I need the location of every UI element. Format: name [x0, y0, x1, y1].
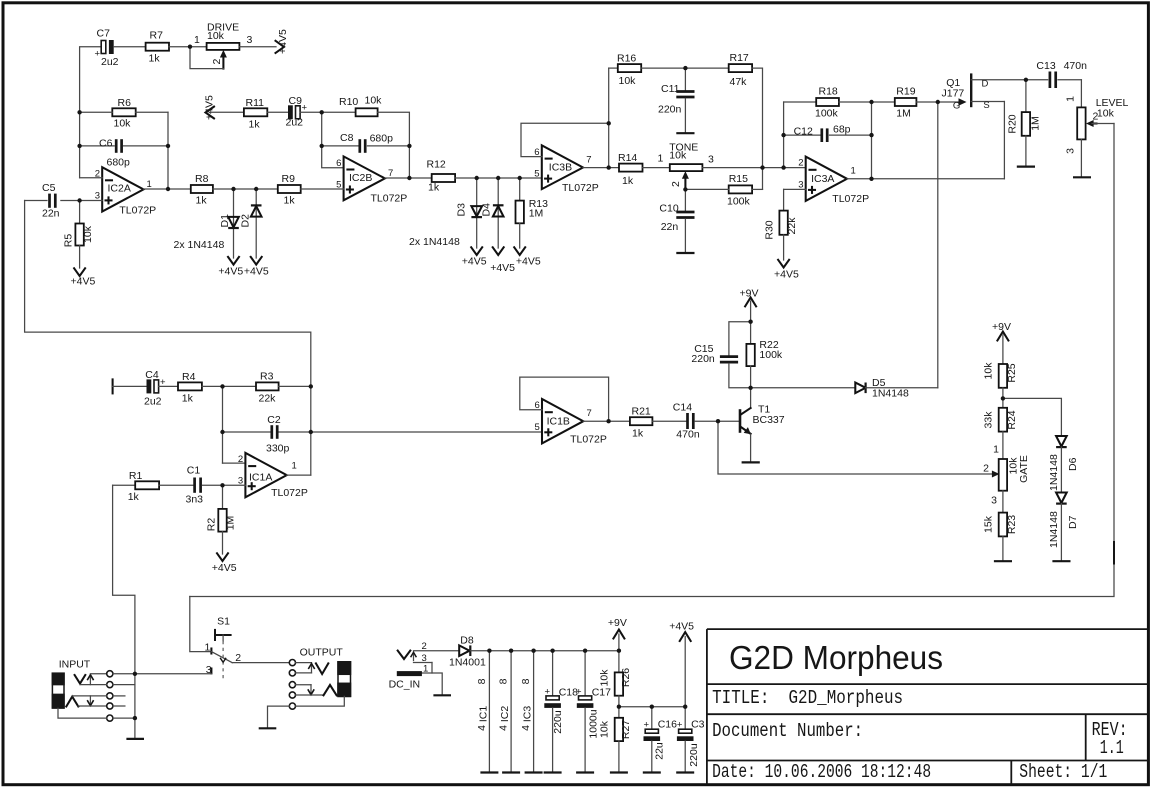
junction node at 783.6,167.6	[781, 165, 785, 169]
op-amp IC1A	[223, 453, 308, 499]
capacitor C2	[223, 414, 311, 455]
junction node at 321.7,112.3	[320, 110, 324, 114]
svg-text:R2: R2	[206, 518, 218, 532]
svg-text:GATE: GATE	[1018, 455, 1030, 483]
wire C9 to node	[300, 111, 356, 113]
svg-text:R19: R19	[896, 86, 915, 98]
svg-text:R30: R30	[764, 220, 776, 239]
resistor R19	[895, 86, 917, 120]
svg-text:22u: 22u	[654, 742, 666, 760]
resistor R16	[609, 53, 642, 88]
svg-text:+4V5: +4V5	[669, 620, 694, 632]
svg-text:R4: R4	[182, 371, 196, 383]
svg-text:1k: 1k	[149, 53, 161, 65]
svg-text:4: 4	[498, 725, 510, 731]
svg-text:IC1B: IC1B	[547, 416, 570, 428]
svg-text:22n: 22n	[661, 221, 679, 233]
resistor R18	[784, 86, 839, 120]
svg-text:2: 2	[983, 463, 989, 475]
resistor R14	[618, 152, 643, 187]
resistor R13	[516, 178, 549, 248]
svg-text:2u2: 2u2	[144, 396, 162, 408]
svg-text:1: 1	[423, 664, 428, 675]
svg-text:1: 1	[658, 153, 664, 165]
potentiometer LEVEL 10k	[1065, 80, 1129, 154]
junction node at 498.2,178	[496, 176, 500, 180]
resistor R15	[727, 173, 752, 208]
connector INPUT jack body	[52, 673, 64, 708]
wire OUTPUT circle5 to ground	[268, 706, 290, 728]
wire R17 right and down	[752, 68, 762, 189]
svg-text:+4V5: +4V5	[774, 269, 799, 281]
svg-text:R20: R20	[1007, 114, 1019, 133]
resistor R17	[729, 52, 752, 88]
svg-text:10k: 10k	[82, 225, 94, 243]
svg-text:C7: C7	[97, 28, 111, 40]
junction node at 310.8,432	[309, 430, 313, 434]
junction node at 134.9,718.1	[133, 716, 137, 720]
svg-text:10k: 10k	[599, 720, 611, 738]
capacitor C10	[659, 189, 694, 253]
svg-text:+4V5: +4V5	[71, 276, 96, 288]
wire vertical C12 right	[871, 102, 873, 179]
svg-text:7: 7	[586, 155, 591, 166]
svg-text:2u2: 2u2	[101, 56, 119, 68]
op-amp IC2B	[336, 156, 407, 204]
svg-text:IC2: IC2	[499, 706, 511, 723]
svg-text:D7: D7	[1067, 515, 1079, 529]
capacitor C12	[784, 124, 872, 143]
svg-text:R1: R1	[129, 470, 143, 482]
svg-text:+4V5: +4V5	[516, 256, 541, 268]
svg-text:220n: 220n	[691, 353, 715, 365]
ground below R23	[994, 560, 1012, 562]
svg-text:+: +	[95, 49, 101, 60]
svg-text:S: S	[983, 100, 989, 111]
supply +4V5 below D2	[244, 257, 269, 278]
diode D4	[481, 178, 504, 248]
op-amp IC1B	[535, 399, 607, 446]
svg-text:R5: R5	[63, 234, 75, 248]
svg-text:68p: 68p	[833, 124, 851, 136]
svg-text:C1: C1	[187, 465, 201, 477]
svg-text:C10: C10	[659, 203, 678, 215]
svg-text:D3: D3	[456, 203, 468, 217]
junction node at 937.8,102	[936, 100, 940, 104]
wire IC1A output	[287, 474, 311, 476]
capacitor C4	[144, 369, 166, 408]
wire R4 to node	[202, 385, 256, 387]
supply +4V5 arrow right	[276, 29, 290, 54]
svg-text:470n: 470n	[1064, 60, 1088, 72]
svg-text:D2: D2	[240, 214, 252, 228]
supply +4V5 below D4	[490, 247, 515, 274]
wire IC1B output	[583, 420, 630, 422]
svg-text:C8: C8	[340, 132, 354, 144]
svg-text:1M: 1M	[225, 516, 237, 531]
wire S1 pin2 to OUTPUT	[232, 662, 289, 664]
junction node at 533.6,650.7	[531, 649, 535, 653]
junction node at 190,46.7	[188, 45, 192, 49]
junction node at 618.9,650.7	[617, 649, 621, 653]
junction node at 585.1,650.7	[583, 649, 587, 653]
wire R12 to IC3B pin5	[455, 177, 542, 179]
svg-text:10k: 10k	[114, 118, 132, 130]
junction node at 762.5,167.6	[760, 165, 764, 169]
svg-text:3: 3	[991, 495, 997, 507]
switch S1	[190, 597, 242, 682]
junction node at 750.6,387.8	[748, 386, 752, 390]
diode D2	[240, 189, 262, 258]
svg-text:1N4001: 1N4001	[449, 657, 486, 669]
wire IC2B output to R12	[385, 177, 432, 179]
svg-text:IC2B: IC2B	[349, 172, 372, 184]
wire R11 to C9	[267, 111, 288, 113]
junction node at 608.6,421.2	[606, 419, 610, 423]
svg-text:R26: R26	[620, 668, 632, 687]
capacitor C1	[186, 465, 246, 506]
junction node at 222.5,432	[220, 430, 224, 434]
svg-text:470n: 470n	[676, 429, 700, 441]
svg-text:4: 4	[476, 725, 488, 731]
svg-text:33k: 33k	[983, 411, 995, 429]
transistor Q1 J177	[938, 73, 1026, 178]
junction node at 409.4,145.9	[407, 144, 411, 148]
wire LEVEL wiper long vertical	[190, 124, 1114, 597]
junction node at 552.6,650.7	[550, 649, 554, 653]
svg-text:10k: 10k	[207, 30, 225, 42]
svg-text:R21: R21	[632, 406, 651, 418]
diode D7	[1048, 493, 1079, 562]
INPUT tip contact	[75, 674, 107, 685]
resistor R27	[599, 718, 633, 773]
junction node at 519.7,178	[518, 176, 522, 180]
svg-text:IC2A: IC2A	[108, 183, 131, 195]
potentiometer GATE 10k	[983, 444, 1030, 507]
svg-text:+9V: +9V	[608, 617, 627, 629]
svg-text:R6: R6	[118, 97, 132, 109]
resistor R6	[112, 97, 135, 130]
svg-text:3: 3	[247, 34, 253, 46]
svg-text:7: 7	[388, 168, 393, 179]
svg-text:220u: 220u	[552, 710, 564, 734]
svg-text:R24: R24	[1006, 410, 1018, 429]
svg-text:INPUT: INPUT	[59, 659, 91, 671]
svg-text:+4V5: +4V5	[490, 262, 515, 274]
ground below LEVEL	[1073, 176, 1091, 178]
capacitor C11	[658, 68, 695, 133]
transistor T1 BC337	[740, 388, 785, 463]
svg-text:3: 3	[95, 191, 100, 202]
svg-text:R11: R11	[246, 97, 265, 109]
wire C4 to R4	[159, 385, 178, 387]
svg-text:3: 3	[1065, 148, 1077, 154]
svg-text:R12: R12	[427, 159, 446, 171]
junction node at 685.4,189.4	[683, 187, 687, 191]
svg-text:1N4148: 1N4148	[1048, 511, 1060, 548]
svg-text:J177: J177	[942, 87, 965, 99]
junction node at 168,189	[166, 187, 170, 191]
capacitor C17	[576, 651, 611, 773]
svg-text:C14: C14	[673, 402, 692, 414]
OUTPUT circle terminals	[289, 660, 295, 710]
svg-text:+: +	[545, 687, 551, 698]
capacitor C8	[322, 132, 410, 153]
junction node at 608.7,167.6	[607, 165, 611, 169]
junction node at 618.9,706.7	[617, 705, 621, 709]
wire R3 to node	[279, 385, 311, 387]
resistor R3	[256, 371, 279, 405]
junction node at 750.6,321.7	[748, 320, 752, 324]
svg-text:R9: R9	[282, 173, 296, 185]
svg-text:C6: C6	[99, 138, 113, 150]
junction node at 256.2,189	[254, 187, 258, 191]
wire DC_IN pin2 to D8	[414, 650, 460, 652]
junction node at 1002.9,398.4	[1001, 396, 1005, 400]
svg-text:220u: 220u	[688, 743, 700, 767]
connector DC_IN	[389, 641, 432, 691]
svg-text:4: 4	[520, 725, 532, 731]
svg-text:2x 1N4148: 2x 1N4148	[174, 239, 225, 251]
capacitor C5	[25, 182, 60, 220]
supply +9V above rail	[608, 617, 627, 651]
diode D6	[1048, 436, 1079, 493]
svg-text:100k: 100k	[759, 349, 783, 361]
svg-text:1: 1	[1065, 96, 1077, 102]
junction node at 1025.9,79.8	[1024, 78, 1028, 82]
junction node at 134.9,673.8	[133, 672, 137, 676]
svg-text:6: 6	[336, 158, 341, 169]
wire T1 base node down to gate row	[718, 421, 994, 474]
capacitor C9	[286, 95, 308, 129]
svg-text:+4V5: +4V5	[212, 562, 237, 574]
wire IC2A output	[144, 188, 191, 190]
OUTPUT sleeve wire	[296, 696, 345, 706]
svg-text:1M: 1M	[1030, 116, 1042, 131]
potentiometer DRIVE 10k	[190, 22, 253, 69]
svg-text:C17: C17	[592, 687, 611, 699]
supply +4V5 arrow left (R11)	[204, 95, 216, 120]
svg-text:22k: 22k	[259, 393, 277, 405]
svg-text:+9V: +9V	[992, 321, 1011, 333]
INPUT ring contact	[66, 696, 107, 707]
INPUT circle terminals	[107, 671, 113, 722]
svg-text:BC337: BC337	[753, 414, 785, 426]
wire IC3A output	[847, 178, 1004, 180]
svg-text:1k: 1k	[284, 195, 296, 207]
svg-text:1k: 1k	[196, 195, 208, 207]
svg-text:2x 1N4148: 2x 1N4148	[409, 236, 460, 248]
junction node at 310.8,386.4	[309, 384, 313, 388]
wire DC_IN pins to ground	[432, 663, 442, 696]
svg-text:R14: R14	[618, 152, 637, 164]
arrowhead into GATE wiper	[992, 471, 1000, 478]
wire R7 to node	[169, 46, 207, 48]
junction node at 476.7,178	[475, 176, 479, 180]
svg-text:1k: 1k	[128, 491, 140, 503]
svg-text:S1: S1	[217, 616, 230, 628]
resistor R24	[983, 408, 1019, 459]
wire power rail	[470, 650, 619, 652]
svg-text:15k: 15k	[983, 515, 995, 533]
svg-text:1: 1	[851, 166, 856, 177]
junction node at 608.7,123.3	[607, 121, 611, 125]
svg-text:DC_IN: DC_IN	[389, 679, 421, 691]
supply +9V right	[992, 321, 1011, 364]
wire C7 loop vertical	[80, 47, 101, 178]
wire IC2B pin6 branch	[322, 112, 344, 168]
svg-text:22n: 22n	[42, 208, 60, 220]
resistor R9	[278, 173, 301, 207]
svg-text:10k: 10k	[1097, 108, 1115, 120]
wire DRIVE pin3 to supply	[239, 46, 276, 48]
svg-text:100k: 100k	[815, 108, 839, 120]
svg-text:8: 8	[498, 678, 510, 684]
supply +4V5 below R5	[71, 268, 96, 287]
wire IC2A pin2	[80, 177, 103, 179]
svg-text:C11: C11	[661, 83, 680, 95]
wire C5 left loop down to R3 node	[25, 201, 311, 387]
svg-text:2: 2	[670, 181, 682, 187]
supply +4V5 below R30	[774, 260, 799, 281]
wire IC2A pin3 row	[61, 200, 102, 202]
wire C2 row to IC1B pin5	[311, 431, 542, 433]
resistor R2	[206, 485, 237, 554]
svg-text:10k: 10k	[669, 149, 687, 161]
svg-text:5: 5	[535, 422, 540, 433]
wire IC3A pin3	[784, 188, 806, 190]
junction node at 222.5,485.3	[220, 483, 224, 487]
svg-text:10k: 10k	[365, 95, 383, 107]
supply +9V above R22	[740, 288, 759, 322]
diode D5	[751, 377, 938, 400]
svg-text:C9: C9	[289, 95, 303, 107]
junction node at 718,421.2	[716, 419, 720, 423]
ground below OUTPUT	[259, 727, 277, 729]
connector OUTPUT jack body	[338, 662, 351, 697]
svg-text:R23: R23	[1006, 515, 1018, 534]
supply +4V5 below R13	[514, 247, 541, 267]
INPUT stub wires	[72, 674, 135, 718]
svg-text:1k: 1k	[622, 175, 634, 187]
svg-text:Document Number:: Document Number:	[712, 720, 863, 742]
svg-text:R8: R8	[195, 173, 209, 185]
svg-text:TL072P: TL072P	[271, 487, 308, 499]
svg-text:1: 1	[292, 461, 297, 472]
svg-text:+4V5: +4V5	[204, 95, 216, 120]
svg-text:1: 1	[993, 444, 999, 456]
wire R9 to IC2B pin5	[301, 188, 344, 190]
resistor R10	[339, 95, 382, 117]
svg-text:R16: R16	[617, 53, 636, 65]
svg-text:R27: R27	[620, 720, 632, 739]
svg-text:2: 2	[798, 158, 803, 169]
svg-text:1k: 1k	[428, 182, 440, 194]
diode D1	[219, 189, 239, 258]
svg-text:1: 1	[194, 34, 200, 46]
resistor R25	[983, 362, 1019, 408]
svg-text:1M: 1M	[529, 208, 544, 220]
wire R26/R27 node to C16 C3	[619, 706, 685, 708]
svg-text:1k: 1k	[632, 428, 644, 440]
wire gate vertical down to D5	[937, 102, 939, 388]
wire TONE wiper node to R15	[685, 188, 728, 190]
resistor R1	[113, 470, 193, 503]
svg-text:C13: C13	[1036, 60, 1055, 72]
supply +4V5 below D3	[462, 247, 487, 267]
svg-text:+4V5: +4V5	[218, 266, 243, 278]
junction node at 871.5,135.1	[869, 133, 873, 137]
supply +4V5 above C3	[669, 620, 694, 706]
svg-text:OUTPUT: OUTPUT	[300, 647, 344, 659]
OUTPUT tip contact	[296, 663, 329, 674]
capacitor C3	[676, 707, 704, 773]
svg-text:+9V: +9V	[740, 288, 759, 300]
svg-text:220n: 220n	[658, 104, 682, 116]
svg-text:2: 2	[211, 59, 223, 65]
capacitor C7	[95, 28, 119, 69]
diode D8	[449, 635, 486, 669]
svg-text:R17: R17	[730, 52, 749, 64]
wire R8 to R9	[213, 188, 278, 190]
resistor R5	[63, 201, 95, 269]
svg-text:+4V5: +4V5	[244, 266, 269, 278]
capacitor C16	[643, 707, 677, 773]
svg-text:D4: D4	[481, 203, 493, 217]
INPUT sleeve wire	[58, 708, 107, 718]
svg-text:IC3A: IC3A	[811, 173, 834, 185]
svg-text:1.1: 1.1	[1100, 737, 1124, 759]
junction node at 489.4,650.7	[487, 649, 491, 653]
wire R14 to TONE	[643, 167, 670, 169]
op-amp IC2A	[95, 167, 156, 216]
junction node at 409.4,178	[407, 176, 411, 180]
svg-text:C16: C16	[658, 719, 677, 731]
INPUT ground bus	[134, 674, 136, 739]
svg-text:+4V5: +4V5	[462, 256, 487, 268]
svg-text:22k: 22k	[786, 217, 798, 235]
potentiometer TONE 10k	[658, 142, 715, 190]
junction node at 222.5,386.4	[220, 384, 224, 388]
svg-text:2: 2	[238, 454, 243, 465]
junction node at 321.7,145.9	[320, 144, 324, 148]
junction node at 685.2,706.7	[683, 705, 687, 709]
wire R1 left down to input	[113, 485, 135, 674]
IC3 power stub	[520, 651, 542, 773]
junction node at 511.1,650.7	[509, 649, 513, 653]
capacitor C14	[673, 402, 739, 441]
svg-text:+4V5: +4V5	[277, 29, 289, 54]
svg-text:TL072P: TL072P	[832, 193, 869, 205]
svg-text:680p: 680p	[370, 133, 394, 145]
ground below INPUT	[126, 738, 144, 740]
wire R15 right to vertical	[752, 188, 762, 190]
resistor R23	[983, 513, 1019, 562]
junction node at 168,145.9	[166, 144, 170, 148]
svg-text:C2: C2	[267, 414, 281, 426]
capacitor C13	[1026, 60, 1087, 88]
svg-text:R15: R15	[729, 173, 748, 185]
svg-text:G2D Morpheus: G2D Morpheus	[729, 639, 943, 676]
svg-text:1: 1	[205, 642, 211, 654]
svg-text:680p: 680p	[107, 157, 131, 169]
svg-text:D1: D1	[219, 214, 231, 228]
wire LEVEL pin3 to ground	[1080, 139, 1082, 177]
resistor R4	[178, 371, 202, 405]
wire R19 to gate node	[916, 101, 937, 103]
resistor R8	[191, 173, 213, 207]
junction node at 79.6,200.5	[77, 198, 81, 202]
